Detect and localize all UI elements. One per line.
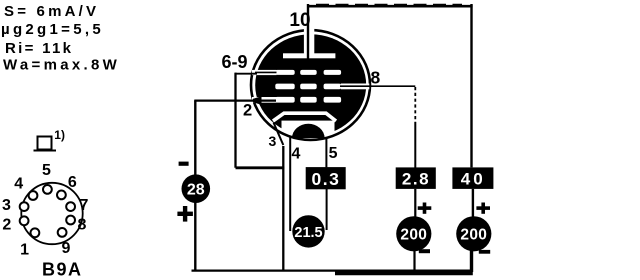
svg-text:3: 3 (269, 133, 277, 149)
svg-text:0.3: 0.3 (311, 169, 340, 189)
svg-text:8: 8 (371, 68, 381, 88)
minus sign left 200 (419, 249, 430, 253)
bracket bottom horizontal to pin3 (236, 166, 285, 169)
box 40 (452, 167, 493, 189)
B9A socket outline (21, 183, 82, 244)
svg-text:28: 28 (187, 181, 205, 198)
grid lead channel row3 left (252, 97, 277, 103)
socket pin 7 hole (66, 202, 75, 211)
pin3 lead diagonal (274, 123, 284, 146)
svg-text:Ri= 11k: Ri= 11k (5, 40, 73, 57)
svg-text:2.8: 2.8 (402, 170, 430, 189)
wire anode top (307, 5, 472, 8)
svg-text:6: 6 (68, 174, 77, 191)
svg-text:µg2g1=5,5: µg2g1=5,5 (1, 21, 104, 38)
grid g dash row1 c1 (275, 70, 294, 75)
top-cap symbol with footnote 1) (34, 128, 65, 151)
plus sign left 200 (418, 206, 432, 210)
tube envelope interior (valve V1) (255, 34, 366, 136)
socket pin 4 hole (29, 191, 38, 200)
svg-text:2: 2 (243, 101, 252, 119)
anode lead notch (304, 25, 314, 56)
wire 40 box to V-meter 200 (472, 189, 474, 217)
grid dash row2 c2 (300, 84, 317, 90)
tube heater white window (282, 121, 335, 146)
bottom bus (192, 270, 473, 272)
wire 28 branch vertical (194, 100, 196, 271)
socket pin 8 hole (66, 216, 75, 225)
svg-text:1): 1) (54, 128, 65, 142)
grid dash row3 c2 (300, 97, 317, 103)
heater arc (292, 124, 325, 138)
grid 6-9 lead wire (235, 73, 257, 75)
svg-text:4: 4 (14, 176, 23, 193)
svg-text:S= 6mA/V: S= 6mA/V (4, 3, 99, 20)
meter 21.5 (292, 215, 324, 247)
wire pin8 vertical dashed (414, 87, 416, 122)
socket pin 6 hole (57, 191, 66, 200)
anode pin8 lead wire (340, 85, 415, 87)
minus sign right 200 (479, 250, 490, 254)
svg-text:7: 7 (80, 197, 89, 214)
grid lead channel row2 right (341, 84, 370, 90)
svg-text:21.5: 21.5 (294, 225, 322, 241)
socket pin 1 hole (31, 228, 40, 237)
pin4 wire to mA meter 21.5 (289, 137, 291, 231)
minus sign 28 (179, 162, 189, 166)
svg-text:Wa=max.8W: Wa=max.8W (3, 57, 120, 74)
svg-text:5: 5 (42, 162, 51, 179)
plus sign 28 (177, 212, 193, 216)
wire 2.8 box to left 200 (414, 189, 416, 217)
svg-text:200: 200 (460, 227, 487, 244)
socket pin 2 hole (20, 216, 29, 225)
grid dash row2 c3 (324, 84, 342, 90)
plus sign right 200 (476, 206, 490, 210)
grid dash row3 c1 (275, 97, 294, 103)
grid dash row1 c3 (324, 70, 342, 75)
svg-text:5: 5 (329, 145, 338, 162)
meter 200 right (456, 216, 491, 251)
svg-text:8: 8 (78, 217, 87, 234)
meter 28 (Vg2 supply) (182, 174, 211, 203)
tube envelope bottom thin arc (282, 133, 335, 140)
anode lead to pin 10 (307, 4, 309, 60)
meter 200 left (396, 216, 431, 251)
bracket vertical 6-9/2 (234, 73, 236, 168)
svg-text:4: 4 (292, 146, 301, 163)
svg-text:3: 3 (2, 197, 11, 214)
grid dash row1 c2 (300, 70, 317, 75)
box 2.8 (396, 167, 436, 189)
grid pin2 lead wire (194, 99, 276, 101)
svg-text:6-9: 6-9 (222, 52, 248, 72)
pin3 vertical to bus (282, 146, 284, 271)
svg-text:200: 200 (400, 227, 427, 244)
anode bar (283, 53, 335, 58)
box 0.3 (Vg1) (306, 167, 346, 189)
svg-text:40: 40 (461, 170, 486, 189)
wire right 200 to bottom bus (470, 250, 473, 272)
bottom bus thick overlay (335, 271, 473, 275)
svg-text:2: 2 (2, 217, 11, 234)
wire pin8 vertical solid to 2.8 box (414, 122, 416, 168)
grid lead channel row1 left (252, 70, 277, 75)
svg-text:10: 10 (289, 10, 310, 31)
grid dash row2 c1 (275, 84, 294, 90)
socket pin 3 hole (20, 202, 29, 211)
svg-text:9: 9 (62, 240, 71, 257)
grid dash row3 c3 (324, 97, 342, 103)
socket pin 9 hole (58, 228, 67, 237)
socket pin 5 hole (43, 185, 52, 194)
tube envelope ring (251, 30, 370, 140)
wire right side down to 40 box (470, 4, 472, 167)
pin5 wire to 0.3 box (325, 137, 327, 167)
wire 0.3 box down to 21.5 meter (326, 189, 328, 230)
cathode line (273, 113, 336, 121)
wire left 200 to bus (413, 251, 415, 272)
svg-text:B9A: B9A (42, 260, 83, 280)
svg-text:1: 1 (20, 242, 29, 259)
